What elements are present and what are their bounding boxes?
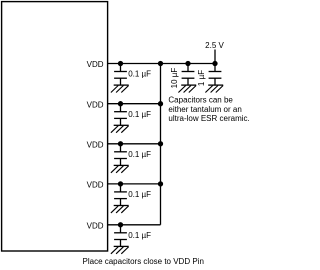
svg-text:0.1 µF: 0.1 µF	[128, 190, 151, 199]
svg-text:VDD: VDD	[87, 60, 104, 69]
svg-text:VDD: VDD	[87, 222, 104, 231]
svg-text:Capacitors can be: Capacitors can be	[168, 96, 233, 105]
svg-text:2.5 V: 2.5 V	[205, 41, 224, 50]
svg-text:0.1 µF: 0.1 µF	[128, 70, 151, 79]
svg-text:VDD: VDD	[87, 100, 104, 109]
svg-text:0.1 µF: 0.1 µF	[128, 110, 151, 119]
svg-text:Place capacitors close to VDD: Place capacitors close to VDD Pin	[83, 257, 204, 266]
svg-text:0.1 µF: 0.1 µF	[128, 231, 151, 240]
svg-text:VDD: VDD	[87, 181, 104, 190]
svg-text:0.1 µF: 0.1 µF	[128, 150, 151, 159]
svg-text:ultra-low ESR ceramic.: ultra-low ESR ceramic.	[168, 114, 249, 123]
svg-text:either tantalum or an: either tantalum or an	[168, 105, 241, 114]
svg-text:1 µF: 1 µF	[197, 70, 206, 86]
svg-text:10 µF: 10 µF	[170, 68, 179, 89]
svg-text:VDD: VDD	[87, 141, 104, 150]
